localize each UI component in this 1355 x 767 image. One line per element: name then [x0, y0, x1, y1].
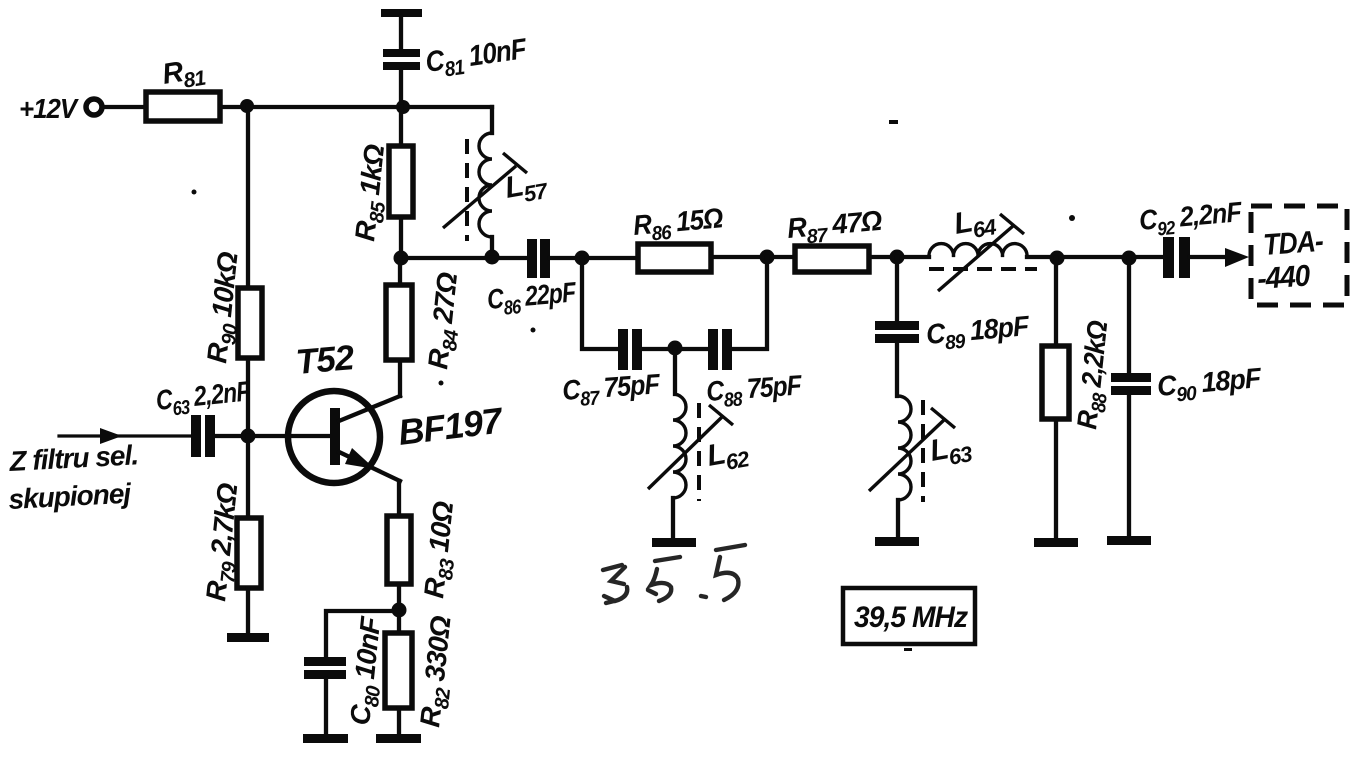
capacitor C86: [527, 239, 537, 278]
arrow to TDA: [1225, 248, 1249, 267]
svg-text:+12V: +12V: [19, 93, 79, 124]
wire R84 top to node C: [398, 258, 402, 285]
wire C63 to base: [215, 434, 331, 438]
wire L63 to ground: [896, 500, 900, 537]
wire chassis to C81: [399, 17, 403, 49]
node junction F: [760, 250, 775, 265]
capacitor C80: [304, 657, 346, 666]
arrow L64: [938, 226, 1013, 291]
wire C81 to node B: [399, 70, 403, 107]
node junction G (L62 top): [668, 341, 683, 356]
wire C86 to node E: [550, 256, 638, 260]
node junction A (R81/R90): [240, 99, 254, 113]
capacitor C89: [875, 321, 919, 330]
svg-text:skupionej: skupionej: [8, 478, 133, 515]
wire C90 to ground: [1127, 395, 1131, 536]
resistor R86: [638, 244, 711, 272]
resistor R82: [385, 633, 412, 708]
node junction B (C81/R85): [396, 100, 410, 114]
wire node C to C86: [401, 256, 527, 260]
capacitor C90: [1111, 373, 1151, 382]
wire node G down to L62: [673, 348, 677, 394]
node junction D (L57 bottom): [485, 250, 500, 265]
wire C87 to C88: [642, 347, 708, 351]
ground R88: [1034, 538, 1078, 547]
capacitor C92: [1163, 237, 1174, 278]
wire node A down to R90: [246, 106, 250, 288]
wire emitter down to R83: [397, 481, 401, 516]
wire R87 to L64: [869, 255, 929, 259]
svg-text:T52: T52: [294, 338, 356, 382]
wire node H down to C89: [895, 257, 899, 321]
inductor L62: [673, 394, 686, 498]
svg-text:-440: -440: [1256, 259, 1311, 296]
wire node F down to C88: [732, 257, 767, 349]
wire R86 to node F: [711, 255, 795, 259]
capacitor C63: [191, 415, 201, 457]
chassis bar top: [381, 9, 422, 17]
handwritten 35.5: [603, 545, 745, 603]
svg-text:39,5 MHz: 39,5 MHz: [854, 601, 969, 634]
transistor T52 circle: [288, 391, 380, 483]
node +12V terminal: [86, 99, 102, 115]
node junction E: [575, 251, 590, 266]
node junction I (R88 branch): [1050, 251, 1065, 266]
wire base node to R79: [246, 436, 250, 518]
core dashed L63: [921, 400, 925, 502]
transistor base bar: [330, 408, 340, 465]
capacitor C88: [708, 329, 718, 370]
input wire: [59, 434, 191, 437]
wire node E down to C87: [582, 258, 618, 349]
resistor R84: [386, 285, 412, 360]
wire R85 to node C: [399, 217, 403, 258]
wire R90 to base node: [246, 358, 250, 436]
svg-text:TDA-: TDA-: [1262, 223, 1324, 261]
ground R82: [376, 734, 421, 743]
wire C92 to TDA: [1190, 255, 1228, 259]
emitter arrow: [345, 448, 375, 469]
resistor R88: [1042, 346, 1069, 419]
resistor R83: [387, 516, 411, 584]
ground C80: [303, 734, 348, 743]
wire L62 to ground: [671, 498, 675, 538]
transistor collector lead: [339, 396, 400, 421]
node junction H (C89 branch): [890, 250, 905, 265]
capacitor C81: [383, 49, 420, 57]
core dashed L62: [697, 403, 701, 501]
wire R83 to emitter node: [397, 584, 401, 633]
arrow L62: [648, 417, 722, 489]
wire L64 to C92: [1027, 255, 1163, 259]
wire node B down to R85: [399, 107, 403, 146]
wire R81 to C81 node: [220, 105, 492, 109]
inductor L63: [898, 396, 911, 500]
ground L63: [875, 537, 919, 546]
wire terminal to R81: [103, 105, 146, 109]
wire collector up to R84: [398, 360, 402, 396]
resistor R81: [146, 92, 220, 121]
resistor R85: [389, 146, 413, 217]
ground L62: [652, 538, 696, 547]
wire node J down to C90: [1127, 258, 1131, 373]
speck marks: [889, 120, 898, 124]
input arrow: [100, 428, 122, 444]
resistor R79: [237, 518, 261, 588]
wire R82 to ground: [397, 708, 401, 735]
inductor L57: [479, 133, 492, 237]
capacitor C87: [618, 329, 628, 370]
node emitter junction: [392, 603, 407, 618]
wire R79 to ground: [246, 588, 250, 634]
resistor R87: [795, 246, 869, 272]
wire C89 to L63: [895, 343, 899, 396]
inductor L64: [929, 244, 1027, 257]
node junction J (C90 branch): [1122, 251, 1137, 266]
wire C80 to ground: [324, 679, 328, 735]
arrow L63: [869, 420, 944, 491]
transistor emitter lead: [339, 452, 400, 481]
wire R88 to ground: [1054, 419, 1058, 538]
core dashed L64: [929, 267, 1037, 271]
wire L57 to node D: [490, 237, 494, 258]
IC TDA-440 dashed box: [1251, 206, 1347, 305]
arrow L57: [443, 166, 516, 228]
node base junction: [241, 429, 256, 444]
node junction C (R85/R84/C86): [394, 251, 409, 266]
ground C90: [1107, 536, 1151, 545]
wire corner down to L57: [490, 107, 494, 133]
core dashed L57: [465, 139, 469, 241]
wire emitter node to C80: [326, 611, 399, 657]
ground R79: [227, 633, 269, 642]
resistor R90: [238, 288, 262, 358]
annotation 39,5 MHz box: [843, 588, 975, 644]
wire node I down to R88: [1054, 258, 1058, 346]
